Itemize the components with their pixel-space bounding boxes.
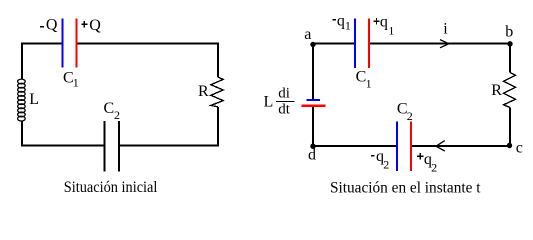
svg-text:dt: dt	[278, 102, 291, 118]
svg-text:i: i	[443, 20, 448, 37]
svg-text:Q: Q	[89, 17, 101, 34]
svg-text:1: 1	[388, 24, 394, 38]
capacitor C2 left plate (left circuit)	[104, 121, 106, 172]
wire bottom-left (left circuit, C2 left plate to bottom-left corner)	[21, 145, 104, 147]
svg-text:2: 2	[407, 109, 413, 123]
label -Q	[40, 26, 44, 28]
svg-text:2: 2	[431, 161, 437, 175]
wire bottom-right (right circuit, C2 red plate to node c)	[412, 145, 510, 147]
battery-like symbol: blue short line (L di/dt emf)	[307, 99, 321, 101]
svg-text:b: b	[505, 23, 513, 40]
wire top-right (right circuit, C1 red plate to node b)	[370, 43, 510, 45]
label +q1	[373, 20, 379, 22]
node b	[507, 41, 512, 46]
wire right-lower (right circuit, resistor to node c)	[509, 108, 511, 147]
wire left-upper (right circuit, node a down to battery symbol)	[312, 45, 314, 99]
svg-text:Situación inicial: Situación inicial	[64, 179, 158, 196]
svg-text:C: C	[104, 100, 115, 117]
node d	[310, 144, 315, 149]
svg-text:R: R	[491, 82, 502, 99]
wire top-left (right circuit, node a to C1 blue plate)	[313, 44, 354, 45]
svg-text:L: L	[29, 91, 39, 108]
resistor R (right circuit zigzag)	[504, 73, 516, 108]
label -q1	[332, 19, 336, 21]
svg-text:d: d	[308, 147, 316, 164]
current arrow (bottom wire, pointing left)	[436, 141, 445, 151]
wire top-left (left circuit, corner to C1 blue plate)	[22, 44, 62, 80]
svg-text:1: 1	[73, 76, 79, 90]
wire right-upper (left circuit, corner down to resistor R)	[217, 43, 219, 78]
wire left-lower (right circuit, battery to node d)	[312, 107, 314, 146]
wire right-lower (left circuit, resistor to bottom-right corner)	[217, 107, 219, 147]
label +q2	[417, 155, 424, 157]
resistor R (left circuit zigzag)	[211, 77, 223, 107]
svg-text:Q: Q	[46, 17, 58, 34]
svg-text:q: q	[380, 14, 388, 31]
inductor L (left circuit coil)	[18, 79, 26, 121]
svg-text:1: 1	[366, 77, 372, 91]
svg-text:R: R	[198, 83, 209, 100]
svg-text:q: q	[337, 12, 345, 29]
wire bottom-left (right circuit, node d to C2 blue plate)	[313, 145, 396, 147]
svg-text:L: L	[264, 93, 274, 110]
svg-text:di: di	[278, 86, 290, 102]
label -q2	[371, 155, 375, 157]
capacitor C1 blue plate (left circuit)	[62, 19, 64, 68]
svg-text:1: 1	[345, 18, 351, 32]
svg-text:c: c	[516, 140, 523, 157]
node a	[310, 42, 315, 47]
node c	[507, 143, 512, 148]
capacitor C1 blue plate (right circuit)	[354, 19, 356, 69]
wire right-upper (right circuit, node b down to resistor R)	[509, 44, 511, 73]
capacitor C1 red plate (left circuit)	[75, 19, 77, 68]
label +Q	[81, 23, 87, 25]
svg-text:2: 2	[383, 158, 389, 172]
current arrow i (top wire, pointing right)	[440, 40, 449, 48]
capacitor C2 red plate (right circuit)	[410, 122, 412, 172]
wire left-lower (left circuit, corner up to inductor L)	[21, 121, 23, 147]
wire top-right (left circuit, C1 red plate to top-right corner)	[77, 43, 218, 45]
capacitor C2 right plate (left circuit)	[118, 121, 120, 172]
wire bottom-right (left circuit, corner to C2 right plate)	[120, 145, 219, 147]
capacitor C1 red plate (right circuit)	[368, 19, 370, 69]
capacitor C2 blue plate (right circuit)	[396, 122, 398, 172]
battery-like symbol: red long line (L di/dt emf)	[302, 105, 326, 107]
svg-text:Situación en el instante t: Situación en el instante t	[330, 180, 481, 197]
svg-text:2: 2	[114, 108, 120, 122]
svg-text:a: a	[304, 26, 311, 43]
